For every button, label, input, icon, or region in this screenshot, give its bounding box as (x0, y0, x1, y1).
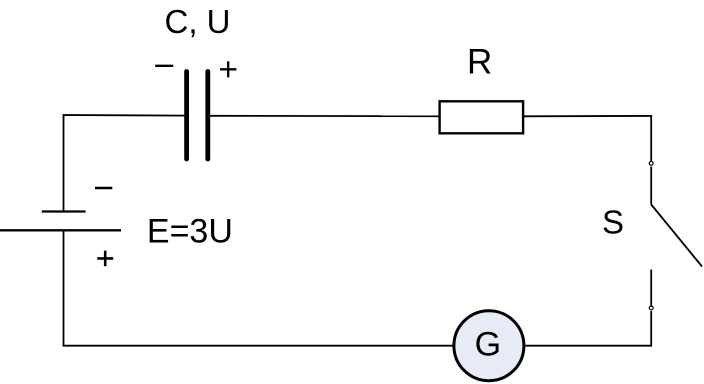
capacitor minus sign (155, 65, 173, 67)
switch S blade (651, 205, 702, 267)
switch S lower terminal circle (649, 306, 653, 310)
wire lower-right vertical above terminal (650, 270, 652, 306)
wire top-left (corner to capacitor) (64, 115, 188, 118)
galvanometer G (454, 311, 524, 381)
wire bottom-left (corner to galvanometer) (64, 343, 453, 346)
resistor R (440, 101, 523, 133)
wire top-middle (capacitor to resistor) (207, 115, 439, 117)
svg-text:S: S (602, 204, 624, 241)
capacitor plus sign (220, 61, 236, 77)
svg-text:G: G (475, 325, 501, 363)
wire top-right (resistor to corner) (524, 116, 651, 162)
capacitor C plates (187, 72, 208, 160)
battery E short plate (42, 210, 86, 212)
switch S upper terminal circle (649, 161, 653, 165)
battery minus sign (95, 187, 112, 189)
svg-text:C, U: C, U (165, 3, 231, 40)
wire left vertical upper (63, 115, 65, 211)
battery plus sign (97, 251, 113, 267)
svg-text:R: R (467, 43, 492, 82)
wire left vertical lower (63, 230, 65, 346)
battery E long plate (0, 229, 121, 231)
wire lower-right vertical to bottom corner (526, 311, 652, 346)
svg-text:E=3U: E=3U (147, 213, 233, 251)
wire terminal to pivot (650, 167, 652, 205)
